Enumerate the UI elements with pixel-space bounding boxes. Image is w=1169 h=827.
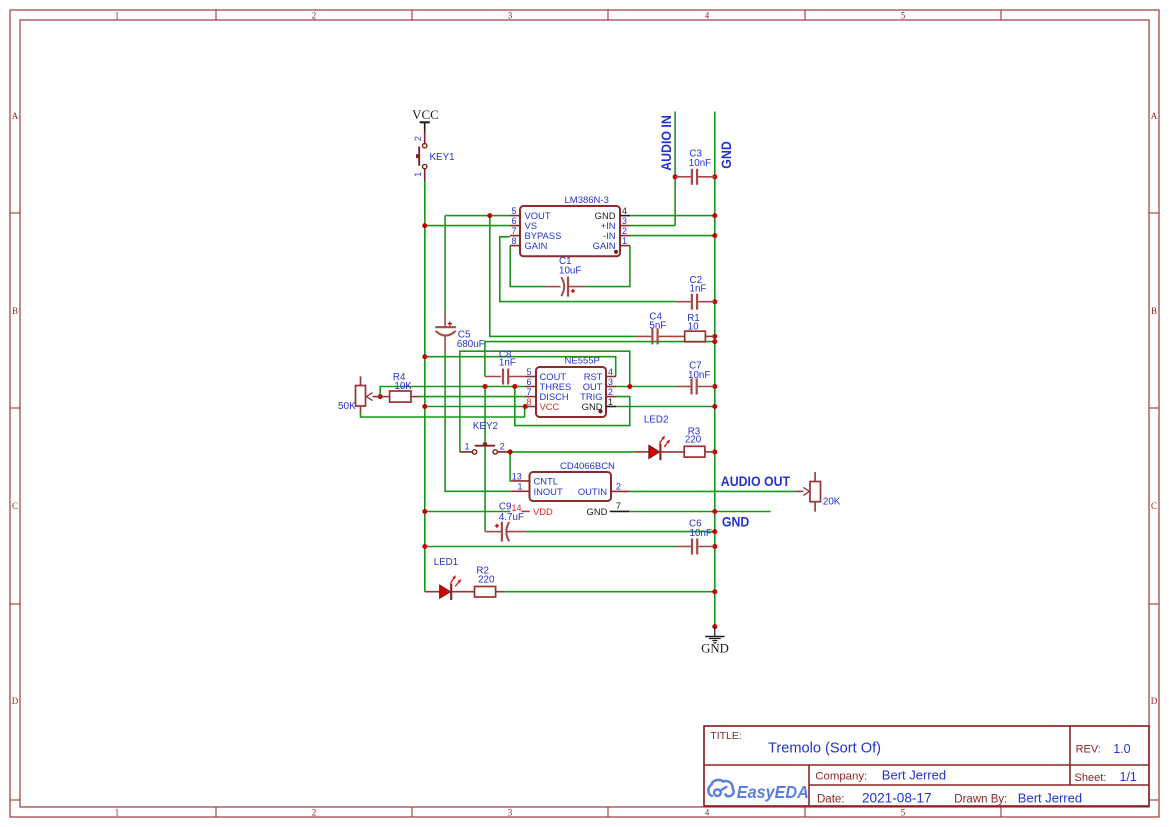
svg-text:1.0: 1.0 [1113,742,1130,756]
CD4066 pin 14 VDD [512,503,554,517]
LED2 label [644,415,669,426]
capacitor C8 [485,369,526,385]
svg-text:1/1: 1/1 [1120,770,1137,784]
svg-text:2021-08-17: 2021-08-17 [862,790,932,805]
svg-text:680uF: 680uF [457,339,485,350]
svg-text:2: 2 [622,226,627,236]
resistor R1 [685,331,715,342]
junction node at 525.3,406.5 [523,404,528,409]
junction node at 714.8,591.7 [712,589,717,594]
NE555 pin 8 VCC [526,397,560,412]
op-amp U1 LM386N-3 body [520,206,620,256]
svg-text:C: C [1151,501,1157,511]
svg-text:6: 6 [512,216,517,226]
capacitor C4 [635,328,684,344]
svg-text:5: 5 [901,10,906,20]
svg-text:2: 2 [312,807,317,817]
svg-text:TITLE:: TITLE: [710,730,742,742]
wire KEY2 pin2 to CNTL pin13 [510,452,512,481]
svg-text:1: 1 [115,10,120,20]
C8 labels [499,350,516,369]
svg-text:EasyEDA: EasyEDA [737,782,809,802]
svg-text:3: 3 [608,377,613,387]
potentiometer 50K [356,376,381,412]
LM386 pin 4 GND [595,206,630,221]
CD4066 pin 2 OUTIN [578,482,629,497]
junction node at 424.8,356.7 [422,354,427,359]
LM386 pin 8 GAIN [510,236,547,251]
svg-text:13: 13 [512,471,522,481]
switch KEY1 [418,132,427,182]
ground symbol GND [701,627,729,656]
svg-text:20K: 20K [823,496,841,507]
KEY2 label [473,421,498,432]
NE555 pin 5 COUT [526,367,567,382]
junction node at 714.8,546.5 [712,544,717,549]
NE555 pin 6 THRES [526,377,572,392]
svg-text:Tremolo (Sort Of): Tremolo (Sort Of) [768,740,881,756]
KEY2 pin number 2 [500,442,505,452]
NE555 pin 2 TRIG [580,387,616,402]
C7 labels [688,360,710,381]
R1 labels [687,313,700,333]
svg-text:5: 5 [512,206,517,216]
wire NE555 pin8 VCC to VCC net [425,406,526,408]
svg-text:4: 4 [608,367,613,377]
wire LM386 pin4 GND to GND net [630,215,715,217]
svg-text:VCC: VCC [412,107,439,122]
net label AUDIO IN [658,115,674,171]
LM386 pin 1 GAIN [593,236,630,251]
junction node at 714.8,176.8 [712,174,717,179]
CD4066 pin 7 GND [587,501,630,517]
svg-text:1: 1 [518,482,523,492]
C1 labels [559,256,581,277]
svg-text:3: 3 [508,10,513,20]
C3 labels [689,149,711,170]
svg-text:INOUT: INOUT [534,486,563,497]
LED1 diode [425,575,475,600]
wire THRES to TRIG link [515,387,630,426]
svg-text:10uF: 10uF [559,266,581,277]
Date row labels and values [817,790,1082,805]
svg-text:D: D [12,696,19,706]
NE555 pin 3 OUT [583,377,616,392]
NE555 pin 7 DISCH [526,387,569,402]
wire -IN pin2 to GND net [630,235,715,237]
svg-text:1: 1 [608,397,613,407]
junction node at 714.8,511.5 [712,509,717,514]
svg-text:6: 6 [527,377,532,387]
KEY1 pin number 2 [413,136,423,141]
junction node at 485.1,386.5 [483,384,488,389]
net label GND top [718,141,734,169]
junction node at 629.8,386.5 [627,384,632,389]
junction node at 489.8,215.6 [487,213,492,218]
wire AUDIO IN vertical [674,112,676,226]
analog switch U3 CD4066BCN body [530,472,612,501]
wire RST pin4 to VCC net [425,357,616,377]
junction node at 714.8,386.5 [712,384,717,389]
svg-text:5nF: 5nF [649,321,666,332]
C6 labels [689,519,712,539]
junction node at 424.8,225.6 [422,223,427,228]
svg-text:Drawn By:: Drawn By: [954,793,1007,805]
wire +IN pin3 to AUDIO IN [630,225,675,227]
resistor R4 [380,391,420,402]
R3 labels [685,427,702,446]
svg-text:1: 1 [413,172,423,177]
LM386 pin 6 VS [510,216,537,231]
svg-text:GAIN: GAIN [525,240,548,251]
C4 labels [649,311,666,331]
NE555 pin 1 GND [582,397,616,412]
svg-text:VCC: VCC [540,401,560,412]
svg-text:KEY1: KEY1 [430,152,455,163]
svg-text:4: 4 [705,10,710,20]
svg-text:3: 3 [508,807,513,817]
LM386 pin 3 +IN [601,216,630,231]
NE555P label [565,355,600,366]
wire GAIN pin8 to C1 left [510,246,545,287]
svg-text:GND: GND [722,514,750,530]
capacitor C6 [675,539,715,555]
Company label and value [815,767,946,782]
wire THRES pin6 to wiper node [380,387,525,397]
C9 labels [499,502,524,523]
resistor R3 [684,446,715,457]
title block dividers [704,726,1149,806]
junction node at 424.8,406.5 [422,404,427,409]
svg-text:4: 4 [705,807,710,817]
title block TITLE label [710,730,742,742]
resistor R2 [475,587,505,598]
wire VOUT to C4 Zobel branch [490,216,636,337]
LM386 pin1 marker dot [614,250,618,254]
LM386 pin 7 BYPASS [510,226,561,241]
svg-text:GND: GND [587,506,608,517]
wire OUT to KEY2 pin1 [460,351,630,452]
KEY2 pin number 1 [464,442,469,452]
svg-text:OUTIN: OUTIN [578,486,607,497]
wire NE555 pin1 GND to GND net [616,406,715,408]
svg-text:KEY2: KEY2 [473,421,498,432]
wire KEY2 pin2 to LED2 [510,451,636,453]
svg-text:1: 1 [464,442,469,452]
wire C8 left plate to GND net [485,342,715,377]
LM386 pin 2 -IN [603,226,630,241]
svg-text:1: 1 [115,807,120,817]
title block outline [704,726,1149,806]
wire C1 right to GAIN pin1 [585,246,630,287]
svg-text:3: 3 [622,216,627,226]
svg-text:D: D [1151,696,1158,706]
svg-text:220: 220 [685,434,702,445]
svg-text:Date:: Date: [817,793,845,805]
CD4066BCN label [560,461,615,472]
junction node at 514.8,386.5 [512,384,517,389]
svg-text:4: 4 [622,206,627,216]
svg-text:4.7uF: 4.7uF [499,512,524,523]
svg-text:A: A [1151,111,1158,121]
Sheet label and value [1075,770,1137,784]
junction node at 714.8,451.9 [712,449,717,454]
KEY1 label [430,152,455,163]
svg-text:50K: 50K [338,401,356,412]
timer U2 NE555P body [536,367,606,417]
junction node at 714.8,341.6 [712,339,717,344]
20K label [823,496,841,507]
svg-text:GND: GND [718,141,734,169]
capacitor C9 polarized [485,522,525,542]
wire THRES node down to C9 [484,387,486,532]
svg-text:10nF: 10nF [688,370,710,381]
svg-text:8: 8 [527,397,532,407]
50K label [338,401,356,412]
svg-text:GAIN: GAIN [593,240,616,251]
junction node at 714.8,215.6 [712,213,717,218]
svg-text:8: 8 [512,236,517,246]
C2 labels [690,275,707,295]
svg-text:10nF: 10nF [690,528,712,539]
svg-text:Sheet:: Sheet: [1075,772,1107,784]
wire CD4066 pin7 GND to GND net [629,511,770,513]
svg-text:Bert Jerred: Bert Jerred [882,767,946,782]
svg-text:7: 7 [527,387,532,397]
wire R2 right to GND net [504,591,715,593]
junction node at 424.8,511.5 [422,509,427,514]
LM386 pin 5 VOUT [510,206,551,221]
junction node at 675.1,176.8 [673,174,678,179]
NE555 pin 4 RST [584,367,616,382]
R4 labels [393,372,412,392]
KEY1 pin number 1 [413,172,423,177]
svg-text:1nF: 1nF [499,358,516,369]
wire C9 right to GND net [525,531,715,533]
capacitor C2 [676,294,715,310]
EasyEDA logo [708,780,808,802]
svg-text:CNTL: CNTL [534,476,558,487]
svg-text:NE555P: NE555P [565,355,600,366]
svg-text:C: C [12,501,18,511]
svg-text:LED2: LED2 [644,415,669,426]
svg-text:220: 220 [478,575,495,586]
svg-text:7: 7 [616,501,621,511]
wire VOUT pin5 horizontal [445,215,510,217]
svg-text:2: 2 [608,387,613,397]
svg-text:2: 2 [312,10,317,20]
junction node at 714.8,336.4 [712,334,717,339]
svg-text:LED1: LED1 [434,557,459,568]
wire BYPASS pin7 to C2 [500,237,676,302]
wire C6 left to VCC net [425,546,675,548]
net label AUDIO OUT [721,473,790,489]
svg-text:LM386N-3: LM386N-3 [565,195,609,206]
svg-text:B: B [1151,306,1157,316]
net label GND mid [722,514,750,530]
svg-text:7: 7 [512,226,517,236]
REV label and value [1076,742,1131,756]
svg-text:Bert Jerred: Bert Jerred [1018,790,1082,805]
wire R4 right to DISCH pin7 [420,396,526,398]
CD4066 pin 1 INOUT [512,482,563,497]
svg-text:1: 1 [622,236,627,246]
LED2 diode [636,436,685,461]
wire OUT pin3 to C7 [616,386,676,388]
switch KEY2 [460,444,510,454]
C5 labels [457,330,485,351]
svg-text:2: 2 [500,442,505,452]
wire VS pin6 to VCC net [425,225,510,227]
svg-text:CD4066BCN: CD4066BCN [560,461,615,472]
junction node at 424.8,546.5 [422,544,427,549]
svg-text:Company:: Company: [815,770,867,782]
svg-text:10: 10 [688,322,699,333]
svg-text:10nF: 10nF [689,158,711,169]
svg-text:5: 5 [527,367,532,377]
R2 labels [476,566,495,586]
svg-text:10K: 10K [394,381,412,392]
junction node at 714.8,235.6 [712,233,717,238]
capacitor C7 [676,379,715,395]
title text Tremolo (Sort Of) [768,740,881,756]
wire 50K bottom to NE555 pin8 [361,407,525,418]
wire VDD line to VCC net [425,511,511,513]
wire VOUT down to C5 [444,216,446,313]
wire OUTIN pin2 to 20K wiper AUDIO OUT [629,490,795,492]
svg-text:VDD: VDD [533,506,553,517]
NE555 pin1 marker dot [598,409,602,413]
svg-text:GND: GND [701,642,729,656]
VCC power symbol [412,107,439,132]
junction node at 380.2,396.6 [378,394,383,399]
junction node at 714.8,626.6 [712,624,717,629]
LED1 label [434,557,459,568]
svg-text:REV:: REV: [1076,744,1101,756]
svg-text:2: 2 [616,482,621,492]
svg-text:5: 5 [901,807,906,817]
svg-text:AUDIO IN: AUDIO IN [658,115,674,171]
junction node at 714.8,531.6 [712,529,717,534]
svg-text:2: 2 [413,136,423,141]
svg-text:1nF: 1nF [690,284,707,295]
svg-text:AUDIO OUT: AUDIO OUT [721,473,790,489]
capacitor C1 polarized [545,277,585,297]
capacitor C5 polarized [435,313,456,352]
wire C5 bottom to INOUT pin1 CD4066 [445,351,512,491]
capacitor C3 [675,169,715,185]
CD4066 pin 13 CNTL [512,471,558,486]
junction node at 510.1,451.9 [508,449,513,454]
junction node at 714.8,406.5 [712,404,717,409]
junction node at 714.8,301.7 [712,299,717,304]
svg-text:B: B [12,306,18,316]
potentiometer 20K [796,472,821,512]
wire VCC net vertical from KEY1 down [424,181,426,592]
wire GND net main vertical [714,112,716,627]
svg-text:A: A [12,111,19,121]
LM386N-3 label [565,195,609,206]
